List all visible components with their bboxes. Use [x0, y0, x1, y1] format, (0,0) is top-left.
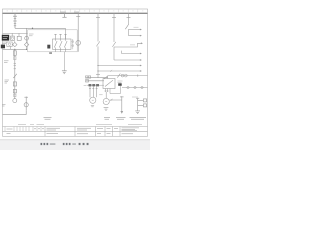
- arrow ref2: [140, 29, 142, 31]
- aux block (dark): [47, 45, 50, 49]
- terminal strip X3 (dark blocks): [89, 84, 92, 86]
- title block mid line: [3, 130, 148, 132]
- wire y87.5 to right border: [122, 87, 148, 89]
- contact S5: [125, 24, 128, 29]
- enclosure label: [29, 34, 34, 36]
- label above step: [130, 44, 135, 46]
- wire M1 to rail: [10, 46, 12, 49]
- plug X5: [143, 104, 146, 107]
- coupler pin 2: [124, 74, 127, 77]
- label above branch: [134, 26, 139, 28]
- stub to K1: [11, 33, 13, 36]
- terminal X2: [14, 57, 16, 60]
- motor M2: [103, 98, 109, 104]
- plug X4: [143, 99, 146, 102]
- branch y71: [98, 70, 140, 72]
- wire y80.8: [86, 80, 104, 82]
- starter box U2: [103, 79, 115, 89]
- wire x114 to y60: [113, 47, 115, 60]
- ground PE3: [135, 111, 140, 114]
- label above junction: [132, 96, 138, 98]
- aux contacts right of Q1: [72, 39, 74, 49]
- arrow down: [120, 111, 123, 114]
- arrow ref4: [140, 53, 142, 55]
- arrow ref3: [140, 35, 142, 37]
- node A: [14, 49, 15, 50]
- breaker Q1 box: [53, 39, 72, 49]
- branch y53.5: [122, 51, 141, 54]
- terminal block X0 (dark): [1, 45, 5, 49]
- wire y100 to x121.8: [109, 99, 121, 101]
- motor feed wires: [89, 86, 98, 97]
- title block main dividers: [45, 127, 120, 137]
- wire to M2: [105, 92, 107, 98]
- ground PE2 under M2: [104, 108, 109, 111]
- branch y29.5: [129, 29, 141, 31]
- label left of X3: [84, 84, 86, 86]
- power supply U1 (dark block): [2, 35, 9, 41]
- bus tap T at x64.5: [62, 14, 66, 18]
- sensor drop x121.8: [120, 96, 124, 111]
- column ruler ticks: [12, 9, 138, 13]
- wire below enclosure: [63, 52, 65, 71]
- pole 3: [64, 34, 67, 52]
- bus tap T x114: [112, 14, 116, 18]
- contact lever on wire y77.7: [104, 76, 108, 79]
- title block cell text: [7, 128, 140, 134]
- wire x128.5 down: [128, 17, 130, 24]
- pole 2: [59, 34, 62, 52]
- relay K3 (dark): [118, 83, 122, 86]
- pole 1: [54, 34, 57, 52]
- wire y77.7: [86, 77, 108, 79]
- lamp P3 on rail: [76, 41, 81, 46]
- pilot lamp P1: [25, 36, 29, 40]
- contact ticks: [14, 64, 16, 69]
- switch diagonal in U2: [105, 80, 113, 86]
- node D: [97, 65, 98, 66]
- U2 pin 1: [104, 89, 106, 93]
- motor M1 label: [91, 105, 94, 106]
- U2 pin 2: [107, 89, 109, 93]
- wire through P1: [26, 28, 28, 43]
- lamp P2: [13, 99, 17, 103]
- revision table dividers: [5, 127, 41, 132]
- label lines mid-left: [4, 61, 9, 63]
- wire x114 down: [113, 17, 115, 42]
- relay K1: [11, 36, 15, 40]
- bus tap T x128.5: [127, 14, 131, 18]
- terminal X2b: [14, 94, 16, 97]
- label left edge: [2, 105, 6, 107]
- motor M1: [90, 97, 96, 103]
- viewer toolbar background: [0, 140, 150, 150]
- meter M1: [7, 42, 12, 46]
- wire: feeder to enclosure: [15, 27, 65, 29]
- wire into starter box: [107, 76, 109, 79]
- branch y65.5: [98, 65, 140, 67]
- branch y35.6: [129, 35, 141, 37]
- valve symbol V2: [24, 42, 28, 46]
- socket 1: [127, 86, 129, 88]
- wire x98 down: [97, 17, 99, 41]
- arrow ref5: [140, 59, 142, 61]
- label tag under breaker: [49, 53, 52, 54]
- control rail 24V: [3, 48, 27, 50]
- wire: left control branch: [14, 49, 16, 98]
- overload relay F3 (upper box pair): [86, 76, 88, 78]
- wire drop into breaker: [65, 28, 67, 39]
- breaker Q2: [13, 51, 16, 56]
- toolbar icons right group: [63, 143, 89, 145]
- wire y75.6 to right border: [108, 75, 148, 77]
- aux contact box: [86, 80, 89, 82]
- arrow ref7: [140, 70, 142, 72]
- contact S7: [117, 74, 120, 78]
- title block outer: [3, 126, 148, 128]
- wire: panel rail drop x78.2: [76, 14, 80, 52]
- tick on wire: [111, 99, 113, 101]
- terminal tick on x98: [96, 73, 100, 75]
- column ruler line: [3, 12, 148, 14]
- coupler pin 1: [121, 74, 124, 77]
- branch y60: [114, 59, 140, 61]
- relay K3 label: [118, 81, 123, 83]
- stub to K2: [18, 33, 20, 36]
- bus tap T x98: [96, 14, 100, 18]
- arrow ref6: [140, 65, 142, 67]
- caption text row y117-120: [44, 118, 147, 120]
- toolbar icons left group: [41, 143, 56, 145]
- terminal tick on wire: [137, 75, 139, 77]
- drawing frame border: [3, 9, 148, 136]
- node C: [32, 28, 33, 29]
- socket 2: [134, 86, 136, 88]
- column numbers (faint): [7, 10, 144, 12]
- scribbles above title block: [18, 124, 142, 126]
- socket 3: [141, 86, 143, 88]
- distribution line above PSU: [3, 32, 28, 34]
- wire x128.5 to y35.6: [128, 29, 130, 35]
- valve symbol V1: [13, 42, 17, 46]
- label -X1: [5, 80, 10, 83]
- coil K2A: [13, 89, 16, 93]
- step wire to sheet ref: [114, 43, 141, 47]
- coil K1A: [13, 82, 16, 86]
- enclosure boundary: [28, 30, 78, 52]
- label under U1: [2, 42, 8, 43]
- horn H1 circuit bottom-left: [3, 97, 29, 115]
- contact S4: [112, 42, 115, 47]
- label near M2: [99, 94, 102, 96]
- power bus L1: [3, 13, 148, 15]
- node B: [26, 49, 27, 50]
- node E: [97, 70, 98, 71]
- U2 pin 3 wire to K3: [110, 86, 121, 94]
- toolbar top border: [0, 139, 150, 141]
- wire: left feeder drop: [14, 14, 16, 29]
- label above bus at F2: [60, 11, 79, 13]
- terminal T at feeder top: [13, 15, 17, 17]
- junction box branch: [136, 98, 143, 111]
- contact S3: [96, 41, 99, 46]
- arrow ref1: [141, 42, 143, 44]
- tick on branch y71: [110, 70, 112, 72]
- contact S2: [13, 74, 16, 78]
- ground PE1: [62, 71, 67, 74]
- fuse F1 marks: [13, 19, 17, 26]
- relay K2: [17, 36, 21, 40]
- wire x98 lower: [97, 46, 99, 77]
